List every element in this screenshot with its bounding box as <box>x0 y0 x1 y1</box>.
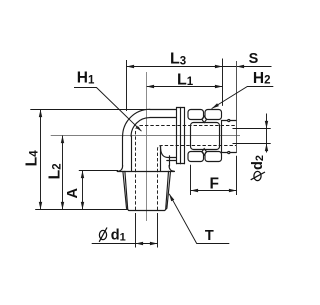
svg-text:A: A <box>65 188 81 199</box>
tube stub end face <box>236 121 238 153</box>
hidden bore lines <box>136 126 237 211</box>
body left outer edge <box>122 137 124 167</box>
flange bottom edge <box>177 163 185 165</box>
T leader arrow <box>169 194 174 201</box>
L3 S dimension line <box>127 66 272 68</box>
body elbow outline <box>117 107 236 210</box>
dimension graphics <box>30 59 273 248</box>
H2 leader line <box>212 87 274 109</box>
thread left outer taper <box>123 171 129 210</box>
arrowheads <box>39 65 268 245</box>
F left arrow <box>191 189 199 192</box>
nut bottom lobe left <box>188 152 204 162</box>
d1 underline and dimension line <box>92 243 158 245</box>
shoulder flare left <box>117 166 122 172</box>
d1 left arrow <box>136 242 144 245</box>
bore outer hidden wall <box>136 126 237 211</box>
A top extension line <box>79 170 118 172</box>
nut bottom corner diamond <box>202 149 207 155</box>
body top outer edge <box>150 109 177 111</box>
svg-text:S: S <box>249 51 259 67</box>
L4 top arrow <box>39 110 42 118</box>
gauge circle bottom <box>228 151 230 153</box>
L4 dimension line <box>40 109 42 209</box>
L2 top arrow <box>61 136 64 144</box>
nut top lobe left <box>188 110 204 120</box>
L1 left arrow <box>147 85 155 88</box>
d2 top arrow <box>265 121 268 129</box>
svg-text:F: F <box>210 176 219 193</box>
flange vertical 3 <box>184 107 186 163</box>
body right outer edge <box>169 156 171 166</box>
F right arrow <box>229 189 237 192</box>
A bottom arrow <box>81 202 84 210</box>
thread bottom edge <box>129 210 165 212</box>
F dimension line <box>191 190 237 192</box>
centerline vertical axis <box>146 72 148 221</box>
T leader line <box>169 194 229 244</box>
body inner bend arc <box>131 118 150 137</box>
L4 bottom arrow <box>39 202 42 210</box>
d2 top extension line <box>233 128 271 130</box>
L2 dimension line <box>62 136 64 210</box>
nut end face <box>221 121 223 153</box>
S right extension line <box>236 61 238 120</box>
tube stub top line <box>222 120 237 122</box>
H1 leader line <box>74 88 142 132</box>
body left inner edge <box>131 136 133 171</box>
bore inner hidden wall <box>158 146 237 211</box>
d2 bottom extension line <box>233 143 271 145</box>
body right inner edge <box>160 146 162 171</box>
S right arrow <box>237 65 245 68</box>
body top inner edge <box>150 117 177 119</box>
nut bottom lobe right <box>205 152 222 162</box>
F left extension line <box>190 165 192 195</box>
d1 right extension line <box>157 213 159 248</box>
L2 bottom arrow <box>61 202 64 210</box>
L3 left arrow <box>127 65 135 68</box>
thread right outer taper <box>165 171 171 210</box>
A dimension line <box>82 171 84 210</box>
label phi d2 <box>251 171 265 180</box>
A top arrow <box>81 171 84 179</box>
d2 bottom arrow <box>265 144 268 152</box>
L3 right arrow <box>215 65 223 68</box>
gauge circle top <box>228 119 230 121</box>
body outer bend arc <box>123 109 150 136</box>
L1 dimension line <box>147 86 223 88</box>
body inner corner arc <box>161 146 177 158</box>
d2 dimension line <box>266 114 268 153</box>
shoulder flare right <box>169 166 174 172</box>
nut top corner diamond <box>202 116 207 122</box>
L3 right extension line <box>222 59 224 106</box>
body bottom outer edge <box>167 160 177 162</box>
centerline horizontal axis <box>51 135 240 137</box>
L1 right arrow <box>215 85 223 88</box>
H1 leader arrow <box>137 126 142 131</box>
nut middle band <box>191 123 220 150</box>
bottom extension line <box>35 209 128 211</box>
d1 left extension line <box>135 213 137 248</box>
flange top edge <box>177 107 185 109</box>
d1 right arrow <box>150 242 158 245</box>
L3 left extension line <box>126 60 128 111</box>
nut top lobe right <box>205 110 222 120</box>
flange vertical 2 <box>180 107 182 163</box>
tube stub bottom line <box>222 152 237 154</box>
H2 leader arrow <box>212 103 219 108</box>
flange vertical 1 <box>176 107 178 163</box>
L4 top extension line <box>30 109 150 111</box>
label phi d1 <box>99 228 107 242</box>
thread left inner taper <box>125 171 128 209</box>
shoulder bottom line <box>117 171 174 173</box>
thread right inner taper <box>166 171 169 209</box>
F right extension line <box>236 156 238 195</box>
svg-text:T: T <box>205 228 214 244</box>
